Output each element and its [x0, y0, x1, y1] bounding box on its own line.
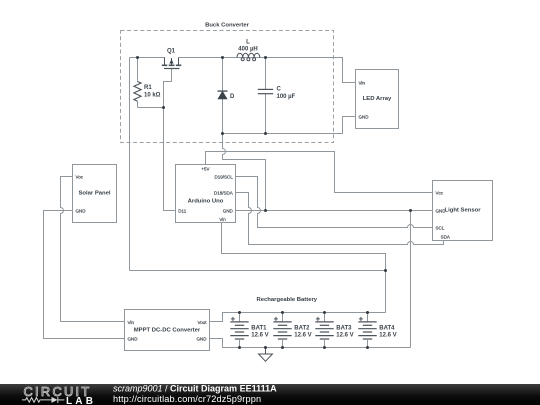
- wire: buck ground tap with hop over +5V: [223, 134, 266, 211]
- svg-text:BAT3: BAT3: [336, 326, 352, 332]
- wire: battery+ riser to buck input: [129, 58, 131, 271]
- node: cap top: [264, 56, 267, 59]
- svg-text:Rechargeable Battery: Rechargeable Battery: [257, 297, 318, 303]
- svg-text:Vin: Vin: [128, 320, 135, 325]
- svg-text:400 µH: 400 µH: [238, 47, 257, 53]
- wire: buck bottom rail to LED GND: [223, 117, 356, 134]
- node: ground tap: [264, 346, 267, 349]
- ground: [259, 348, 273, 362]
- svg-text:D18/SDA: D18/SDA: [214, 190, 233, 195]
- wire: GND net arduino to light sensor: [236, 210, 433, 212]
- svg-text:10 kΩ: 10 kΩ: [144, 93, 161, 99]
- footer bar: [0, 384, 540, 405]
- inductor L: [237, 53, 260, 61]
- MPPT DC-DC converter: [125, 310, 210, 351]
- svg-text:C: C: [277, 87, 282, 93]
- node: light sensor GND junction: [409, 209, 412, 212]
- node: BAT4 top: [366, 311, 369, 314]
- node: diode bottom: [221, 132, 224, 135]
- wire: D18/SDA to light sensor SDA: [236, 193, 444, 245]
- wire: top rail left segment: [130, 57, 166, 59]
- light sensor: [433, 181, 493, 241]
- node: diode top: [221, 56, 224, 59]
- wire: light sensor GND down to battery bottom rail: [410, 211, 412, 348]
- node: cap bottom: [264, 132, 267, 135]
- svg-text:12.6 V: 12.6 V: [336, 333, 353, 339]
- svg-text:Buck Converter: Buck Converter: [205, 23, 250, 29]
- wire: top rail from Q1 drain to LED Vin: [179, 58, 356, 83]
- svg-text:Vin: Vin: [359, 80, 366, 85]
- wire: R1 bottom to gate node: [138, 107, 164, 109]
- svg-text:Q1: Q1: [167, 49, 176, 55]
- wire: diode branch vertical: [222, 58, 224, 134]
- svg-text:LAB: LAB: [66, 396, 96, 405]
- battery BAT1: [230, 313, 248, 348]
- svg-text:SDA: SDA: [441, 234, 450, 239]
- wire: MPPT Vout to battery top rail: [210, 313, 386, 322]
- svg-text:BAT2: BAT2: [294, 326, 310, 332]
- battery BAT2: [273, 313, 291, 348]
- svg-text:Vcc: Vcc: [436, 190, 444, 195]
- wire: +5V rail to light sensor Vcc: [206, 152, 433, 193]
- svg-text:R1: R1: [144, 85, 152, 91]
- node: BAT3 top: [323, 311, 326, 314]
- svg-text:Arduino Uno: Arduino Uno: [188, 198, 224, 204]
- node: BAT1 bottom: [238, 346, 241, 349]
- solar panel: [73, 165, 117, 223]
- wire: R1 top lead: [137, 58, 139, 82]
- svg-text:D11: D11: [178, 208, 186, 213]
- svg-text:GND: GND: [223, 208, 234, 213]
- wire: solar Voc to MPPT Vin with hop: [61, 177, 125, 322]
- wire: gate of Q1 down to arduino D11: [164, 69, 176, 211]
- svg-text:Vout: Vout: [197, 320, 207, 325]
- node: BAT2 bottom: [281, 346, 284, 349]
- node: BAT4 bottom: [366, 346, 369, 349]
- svg-text:BAT4: BAT4: [379, 326, 395, 332]
- wire: MPPT GND to battery bottom rail: [210, 339, 411, 348]
- svg-text:GND: GND: [359, 114, 370, 119]
- svg-text:12.6 V: 12.6 V: [294, 333, 311, 339]
- diode D: [218, 91, 228, 99]
- node: gate/R1 bottom: [162, 106, 165, 109]
- node: BAT2 top: [281, 311, 284, 314]
- arduino uno U1: [176, 165, 236, 223]
- battery BAT3: [315, 313, 333, 348]
- svg-text:MPPT DC-DC Converter: MPPT DC-DC Converter: [134, 328, 201, 334]
- svg-text:SCL: SCL: [436, 225, 445, 230]
- svg-text:http://circuitlab.com/cr72dz5p: http://circuitlab.com/cr72dz5p9rppn: [113, 394, 261, 404]
- svg-text:scramp9001 / Circuit Diagram E: scramp9001 / Circuit Diagram EE1111A: [113, 384, 277, 394]
- node: BAT3 bottom: [323, 346, 326, 349]
- svg-text:+5V: +5V: [201, 166, 209, 171]
- svg-text:12.6 V: 12.6 V: [379, 333, 396, 339]
- svg-text:LED Array: LED Array: [363, 96, 392, 102]
- svg-text:GND: GND: [128, 336, 139, 341]
- resistor R1: [134, 82, 141, 102]
- wire: R1 bottom lead: [137, 101, 139, 107]
- wire: battery+ horizontal to buck input riser: [130, 270, 386, 272]
- svg-text:BAT1: BAT1: [251, 326, 267, 332]
- wire: capacitor branch verticals: [265, 58, 267, 90]
- svg-text:L: L: [246, 40, 250, 46]
- wire: arduino Vin to battery+ node: [222, 223, 386, 313]
- logo squiggle resistor and diode: [22, 397, 65, 403]
- node: BAT1 top: [238, 311, 241, 314]
- buck converter dashed box: [121, 31, 334, 143]
- svg-text:GND: GND: [197, 336, 208, 341]
- wire: D19/SCL to light sensor SCL: [236, 177, 433, 228]
- svg-text:D: D: [230, 94, 235, 100]
- svg-text:Vin: Vin: [219, 217, 226, 222]
- node: GND junction near arduino: [264, 209, 267, 212]
- transistor Q1 (P-channel MOSFET): [162, 58, 182, 69]
- svg-text:Light Sensor: Light Sensor: [445, 207, 482, 213]
- battery BAT4: [358, 313, 376, 348]
- svg-text:12.6 V: 12.6 V: [251, 333, 268, 339]
- node: R1 top: [136, 56, 139, 59]
- wire: solar GND to MPPT GND: [44, 211, 125, 339]
- svg-text:GND: GND: [76, 208, 87, 213]
- LED array: [356, 70, 399, 129]
- node: battery+ junction: [384, 269, 387, 272]
- svg-text:100 µF: 100 µF: [277, 94, 296, 100]
- svg-text:D19/SCL: D19/SCL: [215, 174, 234, 179]
- svg-text:Voc: Voc: [76, 174, 84, 179]
- svg-text:Solar Panel: Solar Panel: [78, 190, 110, 196]
- capacitor C: [258, 89, 273, 93]
